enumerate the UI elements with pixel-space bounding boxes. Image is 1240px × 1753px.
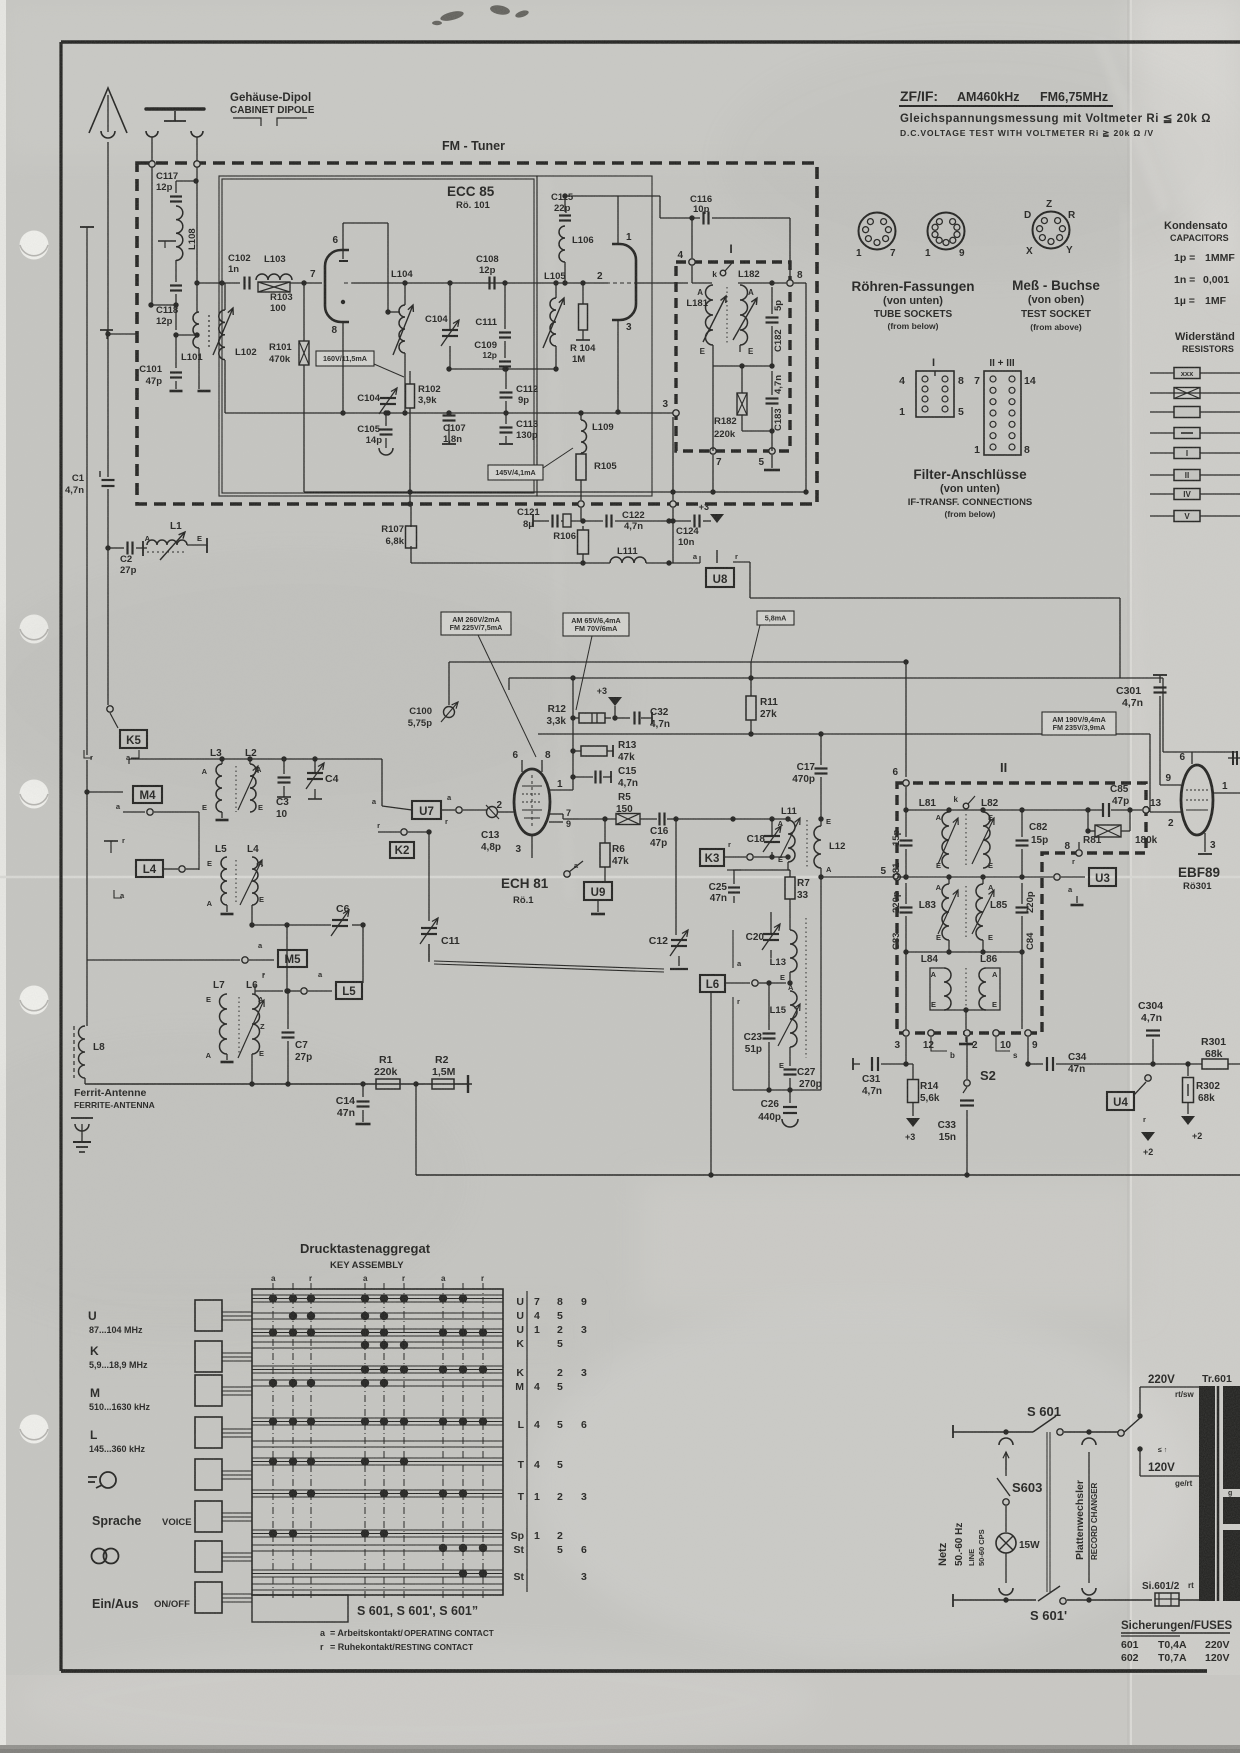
switch K3 [700,849,724,866]
pin 2 ECH81 [498,811,514,813]
capacitor C16 [658,813,660,826]
resistor R6 [600,843,610,867]
node dipole-left [149,161,155,167]
wire to line1175 [415,1084,417,1175]
capacitor C4 [307,772,323,774]
switch S2 [966,1037,968,1079]
pins ECH81 top [521,760,523,772]
wire [733,869,790,871]
wire y678 [509,677,1163,679]
resistor legend row V [1150,515,1240,517]
switch M4 [133,786,162,803]
capacitor C32 [633,712,635,725]
inductor L86 [986,968,1000,1010]
pin 4 [689,259,695,265]
inductor L1 [142,541,144,556]
lamp 15W [996,1533,1016,1553]
pin 3 EBF89 [1204,833,1206,852]
wire C11 bottom [428,944,430,961]
switch L5 [255,990,283,992]
wire row521 [532,515,534,527]
capacitor C111 [499,331,511,333]
capacitor C31 [853,1063,860,1065]
switch K2 [378,831,400,833]
inner compartment 1 [219,176,537,496]
resistor R2 [432,1079,454,1089]
inductor L15 [790,991,797,1047]
socket U9 [584,882,612,900]
wire left drop [86,227,88,755]
capacitor C121 [551,515,553,528]
socket U4 [1107,1092,1134,1110]
capacitor C112 [500,391,513,393]
inductor L3 [216,764,222,812]
wire bottom rail [225,412,673,414]
capacitor C18 [764,835,780,837]
wire [151,167,153,305]
pin 3 ECH81 [531,835,533,858]
inductor L81 [942,812,949,868]
pin 8 of II [1076,850,1082,856]
wire pin5 stub [821,876,893,878]
resistor legend row xxx [1150,372,1240,374]
+3 node2 [608,697,622,706]
pin 8 [787,280,793,286]
wire L6 bottom [251,1054,253,1070]
inductor L8 [73,1026,75,1078]
capacitor C105 [380,428,393,430]
switch L6 [700,975,725,992]
ground ferrite [71,1117,93,1119]
tap 120V [1137,1446,1142,1451]
capacitor C124 [693,515,695,528]
capacitor C23 [763,1032,776,1034]
inductor L83 [942,884,949,940]
capacitor C26 [789,1090,791,1103]
pin 8 [342,322,344,334]
wire I internal [691,266,693,283]
pins 7 9 ECH81 [549,813,563,815]
capacitor C6 [252,924,331,926]
pin 13 of II [1143,807,1149,813]
capacitor C17 [815,767,828,769]
resistor R102 [406,384,415,408]
wire grid row [197,282,240,284]
pin 6 of II [903,780,909,786]
key assembly contacts [269,1294,277,1302]
pin 7 of I [710,448,716,454]
capacitor C11 [428,832,430,921]
capacitor C104b [380,397,396,399]
resistor legend row X [1150,392,1240,394]
key assembly bottom box [252,1595,348,1622]
transformer L7/L6 [220,994,227,1054]
resistor R5 [616,814,640,825]
resistor R182 [737,393,747,415]
capacitor C82 [1016,839,1029,841]
filter box I [916,371,954,417]
callout AM260 [441,612,511,635]
socket U7 [412,801,441,819]
capacitor C104 [442,329,458,331]
inductor L109 [581,420,587,453]
record changer column [1088,1452,1090,1583]
inductor L84 [930,968,944,1010]
wire plate top [565,195,618,197]
wire y662 [449,661,905,663]
band buttons [195,1300,222,1331]
wire EBF89 pin6 [1191,752,1193,764]
key assembly bus rows [252,1294,503,1296]
wire bus1084 [85,1083,472,1085]
resistor R14 [908,1080,919,1103]
capacitor C81 [900,839,913,841]
inductor L182 [740,285,748,345]
pins bottom of II [903,1030,909,1036]
inductor L108 [176,206,183,260]
partial cap right edge [1228,757,1240,759]
capacitor C84 [1016,906,1029,908]
wire y1175 [416,1174,1240,1176]
wire tank bottom [733,1089,821,1091]
icon stereo [92,1549,107,1564]
inductor L11 [788,820,795,862]
resistor R107 [410,505,412,527]
resistor R106 [578,530,589,554]
wire row952 [906,951,1022,953]
capacitor C183 [766,397,779,399]
inductor L111 [410,546,412,563]
pin 5 of I [769,448,775,454]
capacitor C108 [488,277,490,290]
key assembly frame [252,1289,503,1595]
capacitor C83 [900,906,913,908]
key table divider [526,1291,528,1592]
wire plate row [352,282,608,284]
resistor legend row I [1150,452,1240,454]
resistor R104 [579,304,588,330]
inductor L103 [256,274,292,280]
resistor legend row plain [1150,411,1240,413]
inductor L13 [790,930,797,972]
wire II top row [905,787,907,810]
switch K5 [107,706,113,712]
inductor L181 [706,285,713,345]
pin 3 [617,320,619,334]
socket U8 [706,568,734,587]
pin 1 ECH81 [549,789,573,791]
wire row759 [128,759,130,764]
resistor R302 [1187,1064,1189,1076]
wire y734 [538,733,1042,735]
+3 node [710,514,724,523]
capacitor C3 [278,776,291,778]
switch M5 [87,959,240,961]
node dipole-right [194,161,200,167]
capacitor C34 [1027,1037,1029,1064]
wire ladder [572,678,574,790]
switch k [720,270,726,276]
inductor L104 [399,305,405,353]
capacitor C118 [170,284,182,286]
callout AM65 [563,613,629,636]
resistor R11 [746,696,756,720]
resistor R105 [576,454,586,480]
capacitor C25 [728,886,740,888]
resistor R81 [1095,825,1121,837]
callout 145V [488,465,543,480]
wire rail492 [304,491,806,493]
IF transformer II box [897,783,1146,1033]
inductor L85 [976,884,983,940]
capacitor C102 [243,277,245,290]
wire mains top [952,1425,954,1438]
pin 5 of II [894,874,901,881]
switch S603 [997,1478,1010,1496]
pin 6 [342,223,344,259]
inner compartment 2 [537,176,652,496]
tap 220V [1139,1387,1141,1416]
switch L4 [136,860,163,877]
inductor L2 [250,764,256,812]
connector hooks [999,1438,1013,1445]
tube ECC85 left half [325,250,349,322]
filter box II+III [984,371,1021,455]
transformer L5/L4 [221,857,227,905]
resistor R13 [581,746,607,756]
tube socket 9-pin [928,213,965,250]
capacitor C117 [170,195,182,197]
capacitor C7 [282,1031,295,1033]
FM tuner box [137,163,817,504]
capacitor C20 [763,933,779,935]
resistor R12 [579,713,605,723]
resistor R103 [258,282,290,292]
capacitor C109 [499,360,511,362]
resistor legend row II [1150,474,1240,476]
resistor R301 [1147,1063,1202,1065]
capacitor C14 [362,1084,364,1097]
wire L84 L86 bottom [944,1009,986,1011]
inductor L82 [983,812,990,868]
pin 9 EBF89 [1160,784,1181,786]
capacitor C301 [1159,675,1161,683]
capacitor C116 [702,212,704,225]
switch k II [963,803,969,809]
resistor legend row - [1150,432,1240,434]
wire y598 [750,597,1120,599]
bracket a r [732,930,734,968]
tube ECC85 right half [612,244,636,320]
resistor R1 [376,1079,400,1089]
capacitor C27 [784,1068,797,1070]
socket U3 [1089,868,1116,886]
resistor R7 [785,877,795,899]
gang line [434,961,664,969]
tube socket 7-pin [859,213,896,250]
capacitor C1 [102,479,115,481]
capacitor C101 [170,371,182,373]
trimmer C100 [444,707,455,718]
wire antenna down [107,334,109,477]
inductor L105 [550,298,556,346]
bracket b s [931,1037,947,1051]
callout 160V [316,351,374,366]
capacitor C12 [675,928,677,935]
inductor L106 [559,226,565,262]
antenna [107,95,109,132]
pin 1 EBF89 [1213,792,1240,794]
pin 2 EBF89 [1150,811,1181,813]
callout AM190 [1042,712,1116,735]
wire [712,345,714,366]
capacitor C85 [1102,803,1104,817]
inductor L12 [814,826,821,868]
wire M5 to L6 [286,925,288,991]
key assembly columns [272,1283,274,1598]
capacitor C115 [559,214,571,216]
wire row877 [897,876,906,878]
capacitor C2 [105,545,110,550]
capacitor C113 [500,426,513,428]
icon magnifier [100,1472,116,1488]
resistor R101 [299,341,309,365]
wire plate to I box [636,282,688,284]
wire mains bottom [952,1594,954,1607]
border frame [61,40,1240,43]
resistor legend row IV [1150,493,1240,495]
pin 3 of I [673,410,679,416]
tube EBF89 [1181,765,1213,835]
+3 gnd [906,1118,920,1127]
IF transformer I box [676,262,790,451]
capacitor C15 [594,771,596,784]
capacitor C182 [766,316,779,318]
inductor L101 [196,181,198,312]
wire left spine [86,760,88,897]
tube ECH81 [514,769,550,835]
test socket [1033,212,1070,249]
capacitor C13 [487,807,498,818]
inductor L102 [219,310,225,360]
capacitor C122 [605,515,607,528]
pin 1 [617,196,619,244]
wire L6 drop [710,992,712,1175]
cabinet dipole [146,107,204,110]
capacitor C107 [443,414,456,416]
wire row819 [676,818,733,820]
fuse Si601/2 [1155,1593,1179,1606]
callout 58mA [757,611,794,625]
